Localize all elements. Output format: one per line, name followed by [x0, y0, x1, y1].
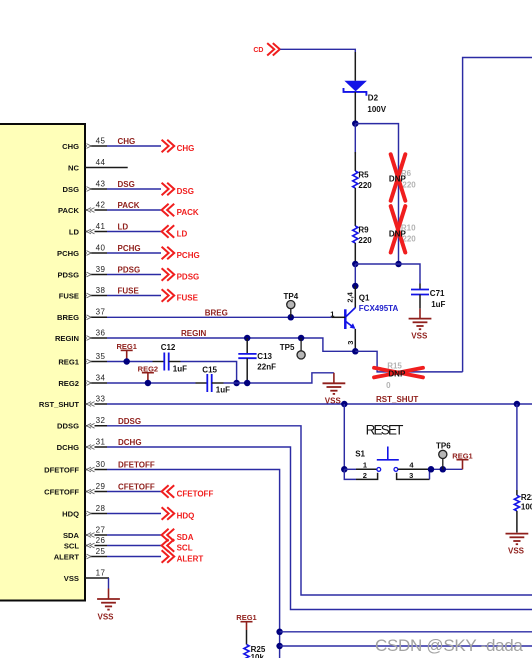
- svg-text:22nF: 22nF: [257, 363, 276, 372]
- svg-text:220: 220: [358, 236, 372, 245]
- DNP cross over R6: [391, 154, 406, 200]
- svg-text:TP6: TP6: [436, 442, 451, 451]
- port SCL (<< chevron + text): [162, 539, 193, 552]
- svg-text:S1: S1: [355, 449, 365, 458]
- svg-text:DNP: DNP: [389, 230, 407, 239]
- power flag REG2 (pin 34): [138, 364, 158, 383]
- svg-text:PACK: PACK: [58, 206, 79, 215]
- test point TP4: [287, 301, 295, 318]
- wire pin to port: [107, 252, 161, 254]
- svg-text:NC: NC: [68, 163, 79, 172]
- pin 44 NC (stub + number + name): [68, 158, 128, 173]
- svg-text:CHG: CHG: [62, 142, 79, 151]
- wire branch at y=646: [280, 645, 532, 647]
- wire pin to port: [107, 274, 161, 276]
- pin 42 PACK (stub + number + name): [58, 200, 107, 215]
- pin 28 HDQ (stub + number + name): [62, 504, 107, 519]
- svg-text:VSS: VSS: [508, 546, 525, 555]
- power flag REG1 (pin 35): [116, 342, 136, 362]
- pin 43 DSG (stub + number + name): [63, 179, 107, 194]
- ground VSS under R22: [506, 534, 529, 545]
- svg-text:36: 36: [96, 328, 106, 337]
- svg-text:DSG: DSG: [118, 180, 135, 189]
- wire Q1 base lead: [331, 316, 345, 318]
- svg-text:25: 25: [96, 547, 106, 556]
- junction DNP column bottom: [395, 261, 402, 268]
- wire pin to port: [107, 491, 161, 493]
- wire RST_SHUT pin33 across: [107, 403, 532, 405]
- svg-text:Q1: Q1: [359, 293, 370, 302]
- DNP cross over R10: [391, 206, 406, 252]
- junction RST_SHUT / S1 branch: [341, 401, 348, 408]
- svg-text:RST_SHUT: RST_SHUT: [376, 395, 418, 404]
- pin 27 SDA (stub + number + name): [63, 525, 107, 540]
- IC U1 body (bq769x0) yellow block: [0, 124, 85, 601]
- junction REG1 flag: [123, 358, 130, 365]
- svg-text:CHG: CHG: [118, 137, 136, 146]
- junction Q1 emitter node: [352, 348, 359, 355]
- wire pin to port: [107, 188, 161, 190]
- junction REGIN / TP5: [298, 335, 305, 342]
- svg-text:R22: R22: [521, 493, 532, 502]
- wire right riser to top: [463, 58, 532, 372]
- svg-text:DCHG: DCHG: [118, 438, 142, 447]
- port SDA (<< chevron + text): [162, 529, 194, 542]
- svg-text:DNP: DNP: [388, 370, 406, 379]
- svg-text:10k: 10k: [251, 653, 265, 658]
- svg-text:29: 29: [96, 482, 106, 491]
- resistor R5: [353, 171, 358, 188]
- capacitor C71: [411, 290, 429, 295]
- wire C13 bottom lead: [246, 358, 248, 383]
- svg-text:LD: LD: [69, 227, 80, 236]
- wire RST_SHUT to R22: [516, 404, 518, 490]
- pin 17 VSS (stub + number + name): [64, 568, 109, 583]
- wire DCHG pin31: [107, 447, 532, 610]
- svg-text:43: 43: [96, 179, 106, 188]
- svg-text:100V: 100V: [367, 105, 386, 114]
- pin 31 DCHG (stub + number + name): [57, 437, 107, 452]
- svg-text:C13: C13: [257, 352, 272, 361]
- pin 33 RST_SHUT (stub + number + name): [39, 394, 107, 409]
- svg-text:C12: C12: [161, 343, 176, 352]
- svg-text:ALERT: ALERT: [54, 552, 80, 561]
- junction R9 bottom: [352, 261, 359, 268]
- svg-text:R9: R9: [358, 226, 369, 235]
- svg-text:27: 27: [96, 525, 106, 534]
- svg-text:REG1: REG1: [58, 357, 79, 366]
- port CD (>> chevron + text): [253, 43, 279, 55]
- test point TP5: [297, 338, 305, 359]
- svg-text:BREG: BREG: [205, 309, 228, 318]
- svg-text:LD: LD: [177, 229, 188, 238]
- svg-text:39: 39: [96, 265, 106, 274]
- wire C71 top lead: [419, 284, 421, 290]
- svg-text:PDSG: PDSG: [57, 270, 79, 279]
- svg-text:CHG: CHG: [177, 144, 195, 153]
- wire R5-R9 lead: [354, 188, 356, 226]
- svg-text:3: 3: [409, 471, 413, 480]
- svg-text:CFETOFF: CFETOFF: [118, 483, 155, 492]
- wire R9 bottom to C71: [355, 264, 420, 284]
- port FUSE (>> chevron + text): [162, 289, 199, 302]
- wire top of DNP column: [355, 124, 398, 153]
- wire pin to port: [107, 209, 161, 211]
- svg-text:2: 2: [363, 471, 367, 480]
- pin 30 DFETOFF (stub + number + name): [44, 460, 107, 475]
- svg-text:PCHG: PCHG: [57, 249, 79, 258]
- svg-text:VSS: VSS: [97, 612, 114, 621]
- pin 45 CHG (stub + number + name): [62, 136, 107, 151]
- svg-text:VSS: VSS: [411, 331, 428, 340]
- svg-text:0: 0: [386, 381, 391, 390]
- junction RST_SHUT / R22 branch: [514, 401, 521, 408]
- wire DDSG pin32: [107, 426, 532, 595]
- port LD (<< chevron + text): [162, 225, 188, 238]
- wire R9 bottom lead: [354, 243, 356, 264]
- power flag REG1 (above R25): [236, 613, 256, 630]
- junction Q1 collector pins 2,4: [352, 283, 359, 290]
- wire R22 bottom lead: [516, 511, 518, 533]
- power flag REG1 (near TP6): [452, 451, 472, 469]
- svg-text:PACK: PACK: [118, 201, 140, 210]
- wire D2 anode lead: [354, 52, 356, 81]
- wire pin to port: [107, 231, 161, 233]
- svg-text:C15: C15: [202, 366, 217, 375]
- svg-text:38: 38: [96, 286, 106, 295]
- junction S1 right: [428, 466, 435, 473]
- diode D2 (schottky, pointing down): [344, 81, 367, 96]
- svg-text:DSG: DSG: [63, 185, 80, 194]
- wire C12 to VSS net corner: [169, 362, 237, 384]
- port HDQ (>> chevron + text): [162, 507, 195, 520]
- wire VSS pin17 down: [108, 578, 110, 599]
- svg-text:TP4: TP4: [284, 292, 299, 301]
- svg-text:DDSG: DDSG: [118, 417, 141, 426]
- svg-text:1uF: 1uF: [173, 364, 187, 373]
- svg-text:R5: R5: [358, 171, 369, 180]
- resistor R9: [353, 226, 358, 243]
- port ALERT (>> chevron + text): [162, 550, 204, 563]
- svg-text:44: 44: [96, 158, 106, 167]
- pin 25 ALERT (stub + number + name): [54, 547, 107, 562]
- svg-text:42: 42: [96, 200, 106, 209]
- svg-text:SDA: SDA: [63, 531, 80, 540]
- pin 37 BREG (stub + number + name): [57, 308, 107, 323]
- wire RST_SHUT down to S1: [343, 404, 345, 469]
- svg-text:SCL: SCL: [64, 541, 80, 550]
- svg-text:220: 220: [358, 181, 372, 190]
- svg-text:CD: CD: [253, 47, 263, 54]
- pin 35 REG1 (stub + number + name): [58, 352, 107, 367]
- wire R25 top lead: [246, 630, 248, 645]
- wire R5 top lead: [354, 152, 356, 171]
- svg-text:BREG: BREG: [57, 313, 79, 322]
- svg-text:HDQ: HDQ: [62, 509, 79, 518]
- wire D2 cathode lead: [354, 92, 356, 124]
- svg-text:DCHG: DCHG: [57, 443, 79, 452]
- wire C13 top lead: [246, 338, 248, 354]
- wire REG2 pin34 to C15: [107, 382, 207, 384]
- svg-text:DFETOFF: DFETOFF: [44, 465, 79, 474]
- wire DFETOFF pin30: [107, 470, 280, 658]
- svg-text:DSG: DSG: [177, 187, 194, 196]
- svg-text:SDA: SDA: [177, 533, 194, 542]
- junction DFETOFF branch 2: [276, 643, 283, 650]
- svg-text:PACK: PACK: [177, 208, 199, 217]
- svg-text:30: 30: [96, 460, 106, 469]
- svg-text:ALERT: ALERT: [177, 554, 204, 563]
- wire Q1 emitter to R15: [355, 351, 462, 372]
- svg-text:FUSE: FUSE: [118, 287, 140, 296]
- svg-text:RST_SHUT: RST_SHUT: [39, 400, 79, 409]
- svg-text:CFETOFF: CFETOFF: [177, 489, 214, 498]
- svg-text:17: 17: [96, 568, 106, 577]
- svg-text:34: 34: [96, 373, 106, 382]
- wire pin to port: [107, 513, 161, 515]
- svg-text:31: 31: [96, 437, 106, 446]
- svg-text:FCX495TA: FCX495TA: [359, 304, 399, 313]
- junction node below D2: [352, 120, 359, 127]
- junction DFETOFF branch 1: [276, 629, 283, 636]
- junction S1 left: [341, 466, 348, 473]
- switch S1 contacts: [344, 468, 462, 480]
- wire REGIN pin36: [107, 338, 355, 351]
- wire REG1 pin35 to C12: [107, 361, 164, 363]
- ground VSS under C71: [409, 309, 432, 330]
- pin 40 PCHG (stub + number + name): [57, 243, 107, 258]
- wire DNP resistor column: [398, 153, 400, 264]
- svg-text:REG1: REG1: [116, 342, 136, 351]
- ground VSS under pin 17: [97, 599, 120, 610]
- svg-text:45: 45: [96, 136, 106, 145]
- svg-text:PCHG: PCHG: [118, 244, 141, 253]
- svg-text:TP5: TP5: [280, 343, 295, 352]
- wire branch at y=632: [280, 631, 532, 633]
- wire Q1 emitter lead: [354, 329, 356, 351]
- wire Q1 collector lead: [354, 286, 356, 308]
- pin 38 FUSE (stub + number + name): [59, 286, 107, 301]
- port PDSG (>> chevron + text): [162, 268, 200, 281]
- junction REGIN / C13: [244, 335, 251, 342]
- wire junction to Q1 collector: [354, 264, 356, 286]
- svg-text:REGIN: REGIN: [55, 334, 79, 343]
- svg-text:CSDN @SKY -dada: CSDN @SKY -dada: [375, 636, 523, 655]
- svg-text:100: 100: [521, 502, 532, 511]
- svg-text:FUSE: FUSE: [59, 291, 79, 300]
- wire CD to diode D2: [280, 49, 355, 52]
- pin 29 CFETOFF (stub + number + name): [44, 482, 107, 497]
- junction REG2 flag: [145, 380, 152, 387]
- capacitor C15: [207, 374, 211, 392]
- svg-text:REG1: REG1: [236, 613, 256, 622]
- svg-text:2,4: 2,4: [346, 291, 355, 302]
- svg-text:VSS: VSS: [64, 574, 79, 583]
- port PCHG (>> chevron + text): [162, 247, 200, 260]
- svg-text:PDSG: PDSG: [118, 266, 141, 275]
- svg-text:32: 32: [96, 416, 106, 425]
- svg-text:D2: D2: [368, 94, 379, 103]
- port DSG (>> chevron + text): [162, 183, 194, 196]
- capacitor C13: [238, 354, 256, 358]
- pin 26 SCL (stub + number + name): [64, 536, 107, 551]
- svg-text:SCL: SCL: [177, 543, 193, 552]
- svg-text:DNP: DNP: [389, 175, 407, 184]
- test point TP6: [439, 450, 447, 469]
- wire pin to port: [107, 295, 161, 297]
- svg-text:LD: LD: [118, 223, 129, 232]
- pin 39 PDSG (stub + number + name): [57, 265, 107, 280]
- pin 32 DDSG (stub + number + name): [57, 416, 107, 431]
- svg-text:40: 40: [96, 243, 106, 252]
- pin 36 REGIN (stub + number + name): [55, 328, 107, 343]
- svg-text:FUSE: FUSE: [177, 293, 199, 302]
- svg-text:41: 41: [96, 222, 106, 231]
- junction TP6 node: [440, 466, 447, 473]
- svg-text:1: 1: [363, 460, 367, 469]
- capacitor C12: [164, 353, 168, 371]
- DNP cross over R15: [374, 368, 423, 378]
- svg-text:REGIN: REGIN: [181, 329, 207, 338]
- svg-text:1uF: 1uF: [431, 300, 445, 309]
- wire BREG pin37 to Q1 base: [107, 316, 331, 318]
- wire R22 top lead: [516, 490, 518, 495]
- wire pin to port: [107, 145, 161, 147]
- svg-text:1uF: 1uF: [216, 385, 230, 394]
- svg-text:37: 37: [96, 308, 106, 317]
- wire C15 to VSS ground: [212, 373, 334, 383]
- junction C12 branch on VSS net: [233, 380, 240, 387]
- wire C71 bottom lead: [419, 295, 421, 309]
- svg-text:35: 35: [96, 352, 106, 361]
- port CHG (>> chevron + text): [162, 140, 195, 153]
- wire pin to port: [107, 534, 161, 536]
- wire pin to port: [107, 545, 161, 547]
- junction TP4 on BREG: [288, 314, 295, 321]
- port PACK (<< chevron + text): [162, 204, 199, 217]
- svg-text:28: 28: [96, 504, 106, 513]
- svg-text:PDSG: PDSG: [177, 272, 200, 281]
- junction C13 branch on VSS net: [244, 380, 251, 387]
- port CFETOFF (<< chevron + text): [162, 485, 214, 498]
- svg-text:CFETOFF: CFETOFF: [44, 487, 79, 496]
- svg-text:26: 26: [96, 536, 106, 545]
- pin 34 REG2 (stub + number + name): [58, 373, 107, 388]
- svg-text:C71: C71: [430, 289, 445, 298]
- svg-text:RESET: RESET: [366, 422, 404, 437]
- svg-text:PCHG: PCHG: [177, 251, 200, 260]
- resistor R22: [514, 495, 519, 511]
- pin 41 LD (stub + number + name): [69, 222, 107, 237]
- svg-text:DFETOFF: DFETOFF: [118, 461, 155, 470]
- svg-text:3: 3: [346, 341, 355, 345]
- svg-text:HDQ: HDQ: [177, 511, 195, 520]
- transistor Q1 NPN symbol: [345, 308, 355, 329]
- wire pin to port: [107, 556, 161, 558]
- svg-text:REG2: REG2: [58, 379, 79, 388]
- svg-text:DDSG: DDSG: [57, 422, 79, 431]
- wire D2 to R5: [354, 124, 356, 154]
- ground VSS (REG caps): [323, 373, 346, 394]
- svg-text:33: 33: [96, 394, 106, 403]
- resistor R25: [244, 645, 249, 658]
- switch S1 actuator: [377, 447, 399, 460]
